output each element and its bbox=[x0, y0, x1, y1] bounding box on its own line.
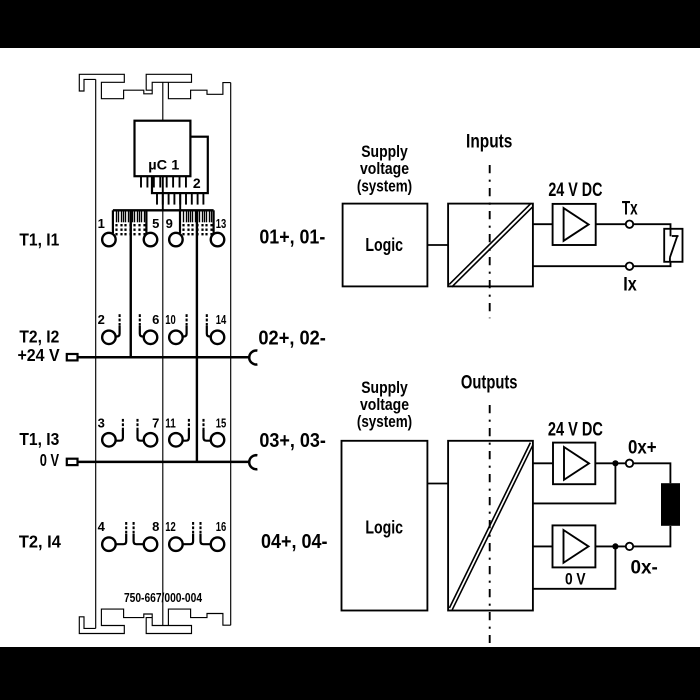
svg-text:13: 13 bbox=[216, 216, 227, 231]
svg-text:0x-: 0x- bbox=[631, 557, 658, 578]
svg-text:24 V DC: 24 V DC bbox=[548, 180, 602, 201]
svg-text:4: 4 bbox=[98, 519, 106, 534]
svg-text:T1, I1: T1, I1 bbox=[19, 229, 59, 249]
svg-text:Inputs: Inputs bbox=[466, 132, 512, 153]
svg-text:Tx: Tx bbox=[622, 198, 638, 219]
svg-text:T2, I2: T2, I2 bbox=[19, 326, 59, 346]
svg-text:T1, I3: T1, I3 bbox=[19, 429, 59, 449]
svg-text:(system): (system) bbox=[357, 412, 412, 431]
svg-text:750-667/000-004: 750-667/000-004 bbox=[124, 591, 202, 605]
svg-text:Logic: Logic bbox=[365, 235, 403, 255]
svg-text:2: 2 bbox=[193, 175, 201, 191]
svg-text:0 V: 0 V bbox=[40, 450, 60, 470]
svg-text:10: 10 bbox=[165, 312, 176, 327]
svg-text:14: 14 bbox=[216, 312, 227, 327]
svg-text:12: 12 bbox=[165, 519, 176, 534]
svg-text:2: 2 bbox=[98, 312, 105, 327]
svg-text:5: 5 bbox=[152, 216, 159, 231]
svg-text:Logic: Logic bbox=[365, 518, 403, 538]
svg-text:16: 16 bbox=[216, 519, 227, 534]
svg-text:0 V: 0 V bbox=[565, 570, 586, 589]
svg-text:7: 7 bbox=[152, 415, 159, 430]
svg-text:02+, 02-: 02+, 02- bbox=[258, 328, 326, 350]
svg-text:8: 8 bbox=[152, 519, 159, 534]
svg-text:+24 V: +24 V bbox=[18, 345, 60, 365]
svg-text:3: 3 bbox=[98, 415, 105, 430]
svg-text:03+, 03-: 03+, 03- bbox=[259, 430, 326, 452]
svg-text:T2, I4: T2, I4 bbox=[19, 532, 61, 552]
svg-text:1: 1 bbox=[98, 216, 105, 231]
svg-text:04+, 04-: 04+, 04- bbox=[261, 531, 328, 553]
svg-text:24 V DC: 24 V DC bbox=[548, 419, 603, 440]
svg-text:Ix: Ix bbox=[623, 275, 637, 296]
svg-text:01+, 01-: 01+, 01- bbox=[259, 227, 325, 249]
svg-text:(system): (system) bbox=[357, 177, 412, 196]
svg-text:0x+: 0x+ bbox=[628, 437, 657, 458]
svg-text:Outputs: Outputs bbox=[461, 373, 518, 394]
svg-text:9: 9 bbox=[166, 216, 173, 231]
svg-text:15: 15 bbox=[216, 415, 227, 430]
svg-text:µC 1: µC 1 bbox=[148, 156, 179, 172]
svg-text:11: 11 bbox=[165, 415, 176, 430]
svg-text:6: 6 bbox=[152, 312, 159, 327]
svg-text:voltage: voltage bbox=[360, 159, 409, 178]
